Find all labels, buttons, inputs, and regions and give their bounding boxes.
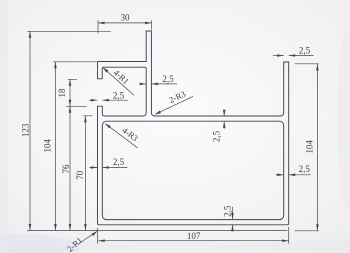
dim 76: [66, 106, 86, 230]
svg-text:104: 104: [42, 138, 52, 152]
left bottom ext: [27, 230, 288, 232]
arrow 104R bottom: [316, 224, 319, 231]
arrow 123 top: [29, 31, 32, 38]
leader 4-R3: [105, 124, 137, 148]
svg-text:2,5: 2,5: [212, 130, 222, 142]
arrow 76 bottom: [69, 224, 72, 231]
arrow 123 bottom: [29, 224, 32, 231]
dim 2,5 bottom wall (vertical): [232, 207, 234, 231]
dim 107: [98, 227, 289, 244]
arrow 2-R1 leader: [92, 231, 97, 236]
dim 2,5 web: [140, 83, 177, 85]
dim 2,5 stub: [89, 99, 128, 101]
svg-text:30: 30: [121, 13, 131, 23]
leader 2-R3: [155, 96, 193, 114]
arrow 104R top: [316, 64, 319, 71]
arrow 2,5 twall top: [223, 110, 226, 117]
svg-text:2,5: 2,5: [299, 45, 311, 55]
svg-text:104: 104: [304, 139, 314, 153]
arrow 2,5 bwall bot: [231, 225, 234, 232]
arrow 107 right: [282, 239, 289, 242]
dim 2,5 right wall top: [273, 55, 314, 57]
arrow 104L top: [54, 62, 57, 69]
arrow 18 bottom: [69, 100, 72, 107]
dim 104 left: [53, 62, 97, 231]
leader 2-R1: [79, 231, 97, 243]
svg-text:18: 18: [57, 88, 67, 98]
arrow 30 right: [145, 22, 152, 25]
arrow 2,5 stub R: [102, 99, 109, 102]
dim 18: [68, 79, 77, 106]
arrow 2-R3 leader: [155, 110, 161, 114]
arrow 2,5 web L: [140, 83, 147, 86]
arrow 2,5 rtop R: [289, 54, 296, 57]
arrow 2,5 bwall top: [231, 213, 234, 220]
svg-text:2,5: 2,5: [222, 205, 232, 217]
svg-text:2,5: 2,5: [299, 164, 311, 174]
arrow 4-R3 leader: [105, 124, 111, 129]
arrowheads: [29, 22, 319, 242]
leader 4-R1: [103, 68, 134, 96]
arrow 18 top: [69, 79, 72, 86]
svg-text:2,5: 2,5: [113, 91, 125, 101]
arrow 2,5 rtop L: [277, 54, 284, 57]
svg-text:2,5: 2,5: [162, 74, 174, 84]
arrow 70 top: [84, 116, 87, 123]
svg-text:2,5: 2,5: [113, 157, 125, 167]
dim 2,5 right wall mid: [275, 174, 310, 176]
dimension texts: [21, 13, 315, 253]
arrow 2,5 rmid L: [277, 174, 284, 177]
arrow 104L bottom: [54, 224, 57, 231]
dim 2,5 left wall: [89, 167, 127, 169]
arrow 2,5 stub L: [91, 99, 98, 102]
arrow 2,5 lwall R: [102, 166, 109, 169]
arrow 4-R1 leader: [103, 68, 108, 73]
svg-text:123: 123: [21, 123, 31, 137]
arrow 2,5 web R: [151, 83, 158, 86]
arrow 107 left: [98, 239, 105, 242]
arrow 30 left: [98, 22, 105, 25]
dimension graphics: [27, 20, 319, 243]
dim 2,5 top wall (vertical): [223, 110, 225, 129]
svg-text:76: 76: [61, 164, 71, 174]
arrow 2,5 twall bot: [223, 121, 226, 128]
profile outline (outer): [98, 31, 289, 225]
dim 30: [98, 20, 152, 33]
svg-text:70: 70: [75, 170, 85, 180]
inner cavity: [102, 121, 283, 219]
dim 70: [83, 116, 93, 231]
dim 123 lines: [27, 31, 110, 230]
arrow 70 bottom: [84, 224, 87, 231]
arrow 76 top: [69, 106, 72, 113]
arrow 2,5 rmid R: [289, 174, 296, 177]
dim 104 right: [295, 64, 319, 231]
svg-text:107: 107: [187, 231, 201, 241]
arrow 2,5 lwall L: [91, 166, 98, 169]
